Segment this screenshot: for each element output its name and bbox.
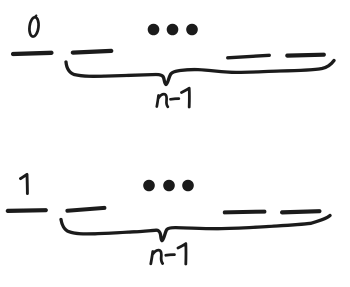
ellipsis dots (row 1) [148, 24, 198, 36]
label n-1 (row 1) [157, 88, 190, 107]
dash (row 2, item 0) [8, 208, 46, 213]
label n-1 (row 2) [151, 244, 186, 264]
dash (row 2, item 1) [67, 208, 104, 211]
brace under row 2 [61, 216, 330, 241]
dash (row 2, item n-1) [282, 211, 319, 212]
brace under row 1 [66, 61, 334, 85]
dash (row 1, item 0) [13, 53, 51, 54]
ellipsis dots (row 2) [143, 180, 194, 192]
dash (row 1, item n-1) [287, 53, 324, 58]
label 1 (row 2 index) [21, 174, 28, 193]
dash (row 1, item n-2) [228, 55, 269, 58]
dash (row 1, item 1) [73, 51, 111, 53]
label 0 (row 1 index) [28, 16, 39, 37]
dash (row 2, item n-2) [225, 210, 265, 215]
